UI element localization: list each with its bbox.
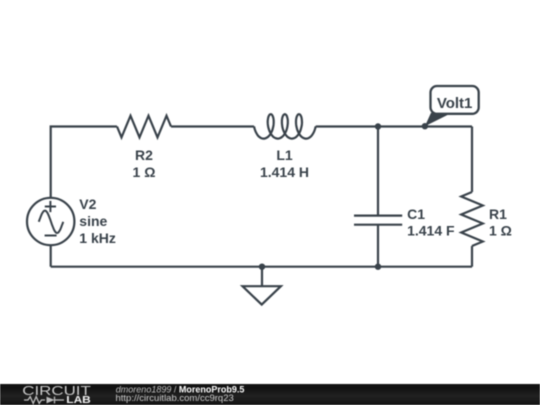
- svg-text:1.414 F: 1.414 F: [407, 222, 455, 238]
- svg-text:R1: R1: [489, 206, 507, 222]
- svg-text:LAB: LAB: [66, 395, 91, 405]
- svg-text:1 Ω: 1 Ω: [133, 164, 156, 180]
- svg-text:L1: L1: [276, 147, 293, 163]
- svg-text:Volt1: Volt1: [437, 95, 473, 112]
- svg-text:http://circuitlab.com/cc9rq23: http://circuitlab.com/cc9rq23: [116, 393, 234, 404]
- svg-text:1 kHz: 1 kHz: [79, 230, 116, 246]
- svg-text:1.414 H: 1.414 H: [260, 164, 309, 180]
- svg-text:V2: V2: [79, 196, 96, 212]
- svg-text:1 Ω: 1 Ω: [489, 222, 512, 238]
- svg-text:C1: C1: [407, 206, 425, 222]
- svg-text:sine: sine: [79, 213, 107, 229]
- svg-text:R2: R2: [135, 147, 153, 163]
